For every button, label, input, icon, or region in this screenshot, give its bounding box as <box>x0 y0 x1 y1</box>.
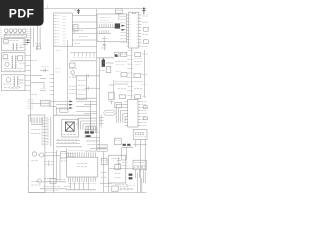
wire <box>33 28 35 48</box>
crystal X1 <box>74 9 80 14</box>
eeprom U6 <box>115 103 122 108</box>
diode row D1-D5 <box>74 53 95 58</box>
transformer T1 windings <box>5 29 26 34</box>
row parts 3 <box>42 178 66 183</box>
transformer T4 <box>10 76 25 88</box>
video amp box <box>76 76 86 99</box>
transistor Q1 <box>5 62 9 66</box>
cap C20 <box>101 36 108 51</box>
right bus <box>131 48 133 99</box>
audio amp box <box>2 75 25 91</box>
headphone ic U8 <box>133 160 146 170</box>
connector comb <box>85 126 98 133</box>
chroma parts <box>84 131 106 151</box>
u1 lower pin rows <box>127 51 132 96</box>
ic U1 body <box>129 12 139 48</box>
wire <box>99 58 101 150</box>
b+ rail <box>96 9 98 150</box>
bent bus to ic U5 <box>116 105 125 123</box>
left stub caps <box>40 67 49 91</box>
left mid components <box>31 61 44 95</box>
vertical rails <box>56 148 66 181</box>
arrow junctions <box>56 100 73 109</box>
row parts 4 <box>40 186 67 190</box>
resistor row R11 <box>98 30 111 33</box>
svg-text:PDF: PDF <box>9 7 35 21</box>
small parts top <box>75 29 88 44</box>
wire <box>66 40 68 110</box>
wire <box>50 101 72 104</box>
u8 parts <box>115 148 133 189</box>
hv labels <box>99 18 111 21</box>
hv box <box>97 14 127 42</box>
connector ladder <box>42 117 51 146</box>
transistor Q5 <box>38 153 44 157</box>
speaker parts <box>105 185 135 191</box>
u8 wires <box>136 170 144 193</box>
video amp parts <box>78 80 86 94</box>
wire to bridge <box>23 40 30 44</box>
cap bank <box>99 115 104 128</box>
av parts <box>101 157 134 170</box>
wire <box>38 26 41 50</box>
ref text column <box>28 100 34 109</box>
resistor row R10 <box>98 23 120 28</box>
ic U7 label <box>77 163 87 166</box>
deflection box <box>54 115 91 192</box>
row components right <box>134 50 148 99</box>
av box <box>109 155 126 183</box>
cn2 wires <box>133 139 147 192</box>
wire <box>76 106 90 108</box>
smps sub-circuit box <box>2 53 25 72</box>
fuse F1 <box>35 44 41 49</box>
ic U7 body <box>67 157 98 177</box>
crt label pill <box>104 110 115 115</box>
flyback cluster <box>97 58 114 73</box>
ladder rungs <box>50 50 61 94</box>
net label pills <box>97 144 108 151</box>
ic U5 body <box>128 99 138 127</box>
pin rows <box>56 139 82 147</box>
ic U1 pin numbers <box>129 15 138 46</box>
crt connector comb <box>31 117 44 124</box>
row parts 1 <box>44 152 76 158</box>
capacitor C12 <box>73 25 78 31</box>
label box J2 <box>56 107 68 116</box>
transistor Q2 <box>6 78 11 83</box>
wire <box>31 103 56 106</box>
smps resistors <box>4 69 22 71</box>
border tick <box>47 5 49 9</box>
degauss sub-circuit box <box>2 39 25 51</box>
wire <box>84 113 97 115</box>
crt board box <box>29 115 45 193</box>
regulator U4 <box>18 56 25 62</box>
relay box K1 <box>41 100 50 106</box>
arrow marks <box>122 25 125 31</box>
wire <box>84 104 97 106</box>
wire <box>90 101 92 129</box>
driver parts <box>69 63 77 93</box>
connector CN2 <box>133 130 147 140</box>
ic U7 top pins <box>68 151 97 157</box>
transformer T2 <box>12 43 25 50</box>
label box <box>116 9 123 20</box>
wire <box>76 101 96 103</box>
transistor Q6 <box>36 179 42 183</box>
wire <box>53 46 55 115</box>
bridge rectifier BR1 <box>62 119 79 137</box>
transformer T3 <box>11 55 25 68</box>
wire <box>70 60 96 62</box>
PDF badge <box>0 0 44 26</box>
mains wire <box>30 28 32 123</box>
resistor R30 <box>109 100 114 104</box>
left net labels <box>26 30 31 38</box>
box exit stubs <box>25 56 31 91</box>
ic U2 body <box>54 13 73 46</box>
wire <box>76 97 96 99</box>
left margin pin labels <box>0 29 2 38</box>
right components <box>142 16 148 46</box>
wire <box>76 111 96 113</box>
ic U1 right pins <box>139 15 142 46</box>
optocoupler U3 <box>3 55 9 60</box>
degauss relay <box>3 40 18 44</box>
staircase wires <box>78 118 97 129</box>
line filter box <box>4 34 26 37</box>
amp parts <box>3 80 23 88</box>
ic U2 left pins <box>54 16 65 47</box>
audio rails <box>100 152 112 193</box>
tuner box <box>114 138 121 145</box>
row parts 2 <box>44 160 66 166</box>
ic U5 left pins <box>125 102 128 126</box>
arrowheads <box>27 39 30 43</box>
small parts <box>122 144 133 148</box>
abl box <box>109 80 114 100</box>
row components left <box>115 52 128 98</box>
crt parts <box>31 129 41 185</box>
vcc arrow <box>142 7 145 14</box>
heater wires <box>72 74 99 90</box>
damper block <box>115 23 120 28</box>
ic U5 right pins <box>138 102 147 126</box>
ic U2 outputs <box>70 16 97 53</box>
pin label column <box>121 17 126 43</box>
ic U7 bottom pins <box>68 177 97 184</box>
ic U1 left pins <box>126 15 128 46</box>
ic U7 wires down <box>64 182 96 190</box>
